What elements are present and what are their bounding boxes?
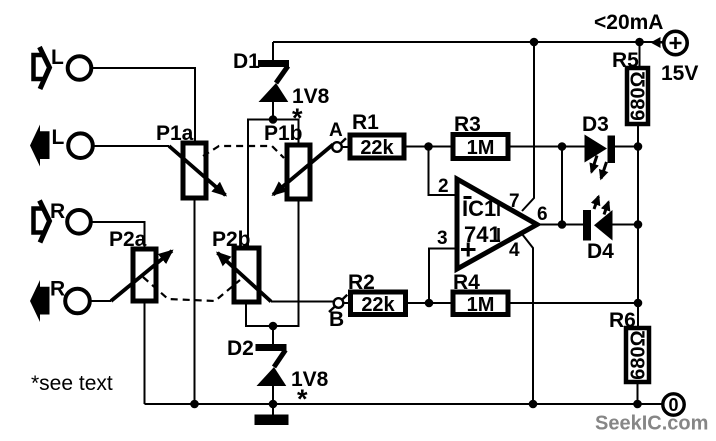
junction R4/divider rail <box>634 299 643 308</box>
ground symbol <box>255 404 289 425</box>
junction R5/supply rail <box>635 38 644 47</box>
junction D1 node <box>269 115 278 124</box>
LED D4 <box>583 197 613 241</box>
svg-text:D2: D2 <box>227 337 254 360</box>
wire R3 to D3 anode <box>508 146 585 148</box>
junction pin4/0V rail <box>529 400 538 409</box>
wire D4 anode to divider rail <box>613 224 639 226</box>
terminal circle L input <box>68 56 92 80</box>
wire D1 node to P1b and P2b tops <box>248 120 299 249</box>
mechanical coupling dashed link P2a-P2b <box>143 277 240 301</box>
svg-text:D1: D1 <box>233 50 260 73</box>
junction pin7/supply rail <box>530 38 539 47</box>
wire A to R1 <box>342 146 350 148</box>
wire R output to P2a wiper <box>91 300 111 302</box>
svg-text:R4: R4 <box>453 271 480 294</box>
svg-text:P2b: P2b <box>212 228 251 251</box>
node A terminal <box>332 142 342 152</box>
svg-text:2: 2 <box>438 176 449 197</box>
wire D3 cathode to divider rail <box>615 146 638 148</box>
potentiometer P1a <box>169 143 226 198</box>
wire pin 7 to supply rail <box>522 42 534 211</box>
resistor R4 1M <box>453 292 508 315</box>
svg-text:4: 4 <box>509 240 520 261</box>
LED D3 <box>585 135 616 179</box>
svg-text:P1a: P1a <box>156 122 194 145</box>
svg-text:1M: 1M <box>467 294 495 316</box>
wire top supply rail <box>273 41 664 43</box>
junction output/D3 branch <box>558 142 567 151</box>
terminal circle L output <box>68 133 93 158</box>
svg-text:D4: D4 <box>587 240 614 263</box>
junction D2 node <box>269 322 278 331</box>
resistor R2 22k <box>351 292 406 315</box>
minus sign inverting input <box>464 196 472 199</box>
svg-text:680Ω: 680Ω <box>628 330 650 379</box>
connector L input (hollow DIN arrow) <box>34 47 50 89</box>
wire P2a bottom to 0V rail <box>144 301 146 404</box>
wire node to op-amp pin 3 <box>429 249 457 304</box>
junction output node <box>558 220 567 229</box>
svg-text:R3: R3 <box>454 113 481 136</box>
wire R input to P2a top <box>92 222 145 248</box>
wire divider rail (R5 to R6) <box>637 124 639 328</box>
print tick marks <box>497 201 500 242</box>
svg-text:3: 3 <box>437 228 448 249</box>
zener diode D2 1V8 <box>256 326 287 404</box>
terminal circle R input <box>67 210 91 234</box>
wire output link vertical <box>561 147 563 225</box>
svg-text:L: L <box>52 126 65 149</box>
resistor R6 680R <box>626 328 649 404</box>
svg-text:D3: D3 <box>582 113 609 136</box>
potentiometer P2a <box>111 249 172 301</box>
svg-text:22k: 22k <box>360 137 394 159</box>
zener diode D1 1V8 <box>258 42 289 120</box>
node B terminal <box>334 298 344 308</box>
current arrow into supply <box>651 37 661 48</box>
svg-text:1M: 1M <box>467 137 495 159</box>
wire P2b wiper to B to R2 <box>271 302 351 304</box>
junction node A / pin2 <box>424 142 433 151</box>
junction R6/0V rail <box>633 400 642 409</box>
svg-text:*see text: *see text <box>31 372 113 395</box>
connector R input (hollow DIN arrow) <box>34 201 50 243</box>
connector L output (solid DIN arrow) <box>30 125 50 167</box>
junction D2/0V rail <box>269 400 278 409</box>
svg-text:R6: R6 <box>609 309 636 332</box>
svg-text:R1: R1 <box>352 111 379 134</box>
svg-text:R: R <box>50 200 65 223</box>
junction P1a/0V rail <box>190 400 199 409</box>
plus sign non-inverting input <box>461 243 476 257</box>
svg-text:7: 7 <box>509 191 520 212</box>
svg-text:15V: 15V <box>661 62 698 85</box>
wire R4 to divider rail <box>508 302 638 304</box>
junction D4/divider rail <box>634 220 643 229</box>
wire R2 to R4 <box>406 302 454 304</box>
potentiometer P1b <box>273 145 333 200</box>
junction D3/divider rail <box>634 142 643 151</box>
svg-text:680Ω: 680Ω <box>628 71 650 120</box>
svg-text:R5: R5 <box>612 49 639 72</box>
resistor R5 680R <box>627 42 648 124</box>
terminal 0V <box>663 394 684 415</box>
wire pin 4 to 0V rail <box>522 234 533 404</box>
resistor R1 22k <box>350 135 404 158</box>
junction node B / pin3 <box>425 299 434 308</box>
wire node to op-amp pin 2 <box>429 147 458 196</box>
svg-text:22k: 22k <box>361 294 395 316</box>
wire D2 node to P2b and P1b bottoms <box>246 199 299 326</box>
svg-text:<20mA: <20mA <box>594 11 663 34</box>
svg-text:P2a: P2a <box>109 228 147 251</box>
svg-text:L: L <box>51 46 64 69</box>
resistor R3 1M <box>453 135 508 159</box>
svg-text:SeekIC.com: SeekIC.com <box>595 413 708 435</box>
svg-text:R: R <box>50 278 65 301</box>
wire L input to P1a top <box>93 68 195 143</box>
wire P1a bottom to 0V rail <box>194 198 196 404</box>
terminal +15V <box>664 31 687 54</box>
svg-text:IC1: IC1 <box>462 196 496 221</box>
potentiometer P2b <box>218 248 272 302</box>
mechanical coupling dashed link P1a-P1b <box>203 146 284 158</box>
svg-text:R2: R2 <box>348 271 375 294</box>
svg-text:A: A <box>329 120 343 141</box>
connector R output (solid DIN arrow) <box>30 280 50 322</box>
svg-text:*: * <box>297 384 308 414</box>
op-amp IC1 741 <box>457 179 537 269</box>
wire R1 to R3 (node under) <box>404 146 453 148</box>
svg-text:B: B <box>329 308 344 331</box>
terminal circle R output <box>65 289 90 314</box>
wire L output to P1a wiper <box>94 145 169 147</box>
svg-text:6: 6 <box>537 204 548 225</box>
wire bottom 0V rail <box>145 403 663 405</box>
wire op-amp output pin 6 <box>537 224 583 226</box>
